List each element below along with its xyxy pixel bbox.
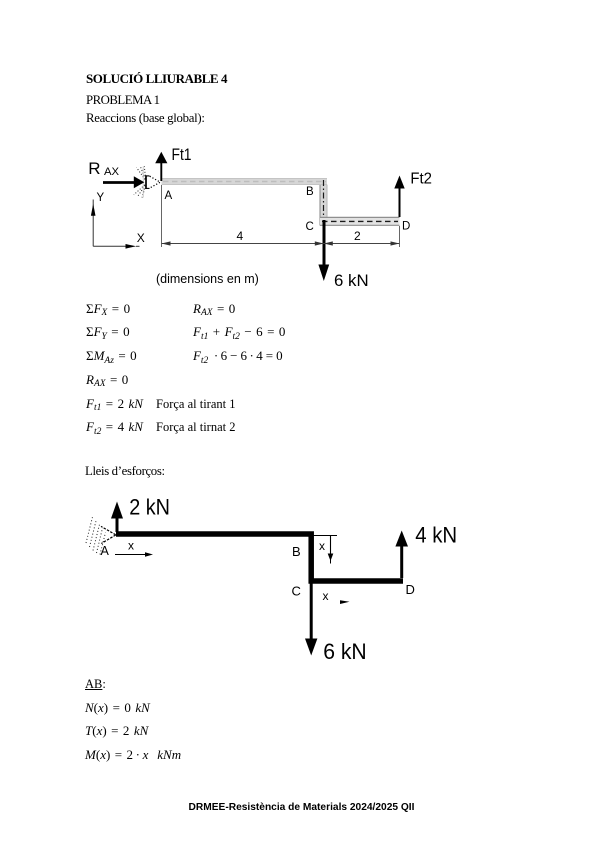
beam CD (grey, horizontal) xyxy=(320,217,400,226)
svg-text:2: 2 xyxy=(354,229,361,243)
force arrow 4 kN xyxy=(395,531,408,579)
svg-text:B: B xyxy=(292,544,301,559)
svg-text:Ft1: Ft1 xyxy=(172,146,192,164)
local axis x at B xyxy=(313,536,337,564)
force arrow 2 kN xyxy=(111,502,123,533)
load arrow 6 kN xyxy=(318,220,329,281)
svg-text:C: C xyxy=(306,221,314,233)
eq Ft2 result xyxy=(86,420,143,435)
svg-text:A: A xyxy=(101,544,110,558)
svg-text:R: R xyxy=(88,159,100,178)
svg-text:Y: Y xyxy=(97,192,105,204)
pin support hatch guide line xyxy=(142,167,144,198)
reaccions label xyxy=(86,112,205,125)
dimension extension line at D xyxy=(399,226,401,247)
svg-text:4 kN: 4 kN xyxy=(415,523,457,548)
pin support at A (triangle edges) xyxy=(101,526,116,543)
svg-text:6 kN: 6 kN xyxy=(334,271,369,290)
title xyxy=(86,72,227,85)
beam path A-B-C-D (thick) xyxy=(116,534,403,581)
svg-text:2 kN: 2 kN xyxy=(129,495,170,520)
svg-text:Ft2: Ft2 xyxy=(410,171,432,188)
eq Ft2*6-6*4=0 xyxy=(193,349,283,364)
force arrow Ft2 xyxy=(394,176,404,218)
eq N(x) xyxy=(85,701,150,714)
text forca tirant 1 xyxy=(156,398,236,411)
svg-text:(dimensions en m): (dimensions en m) xyxy=(156,272,259,286)
reaction arrow R_AX xyxy=(103,176,144,188)
eq sum Fx xyxy=(86,302,130,317)
svg-text:C: C xyxy=(292,584,301,599)
svg-text:AX: AX xyxy=(104,166,120,178)
subtitle problema 1 xyxy=(86,94,160,107)
svg-text:X: X xyxy=(137,231,145,245)
eq sum Maz xyxy=(86,349,137,364)
pin support at A (hatching) xyxy=(86,517,106,555)
eq Rax = 0 xyxy=(193,302,235,317)
pin support at A (hatching fan) xyxy=(134,166,146,197)
lleis d'esforcos label xyxy=(85,465,165,478)
svg-text:D: D xyxy=(406,582,415,597)
eq T(x) xyxy=(85,724,148,737)
force arrow Ft1 xyxy=(155,152,167,181)
svg-text:D: D xyxy=(402,221,410,233)
dimension extension line at A xyxy=(161,185,163,247)
dimension line A-D xyxy=(162,243,400,245)
text forca tirnat 2 xyxy=(156,421,236,434)
svg-text:x: x xyxy=(319,539,325,553)
eq Ft1 result xyxy=(86,397,143,412)
eq M(x) xyxy=(85,748,181,761)
svg-text:B: B xyxy=(306,186,314,198)
svg-text:x: x xyxy=(128,539,134,553)
eq Ft1+Ft2-6=0 xyxy=(193,325,285,340)
pin support at A (bar + dotted triangle) xyxy=(145,175,160,189)
global axes xyxy=(93,200,139,247)
footer xyxy=(2,803,599,813)
eq sum Fy xyxy=(86,325,130,340)
svg-text:A: A xyxy=(165,190,173,202)
beam BC (grey, vertical) xyxy=(320,180,328,226)
beam AB (grey) xyxy=(162,178,328,185)
section AB xyxy=(85,678,106,691)
eq Rax result xyxy=(86,373,128,388)
svg-text:4: 4 xyxy=(237,229,244,243)
svg-text:x: x xyxy=(323,589,329,603)
svg-text:6 kN: 6 kN xyxy=(323,639,367,664)
load arrow 6 kN xyxy=(305,583,317,656)
dimension arrowheads xyxy=(162,241,171,245)
